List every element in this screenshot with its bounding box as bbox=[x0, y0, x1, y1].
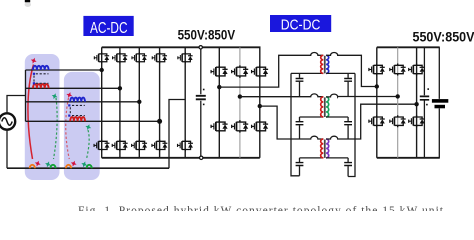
wire: source bottom lead bbox=[6, 130, 8, 169]
wire: T1 primary bottom lead bbox=[291, 72, 323, 74]
switch Q2 (AC-DC top leg2) bbox=[113, 52, 128, 63]
label DC-DC bbox=[270, 15, 331, 34]
switch Q17 (rectifier top leg1) bbox=[369, 64, 385, 76]
ac source V1 bbox=[0, 113, 15, 129]
battery load rail bbox=[438, 47, 440, 158]
svg-text:550V:850V: 550V:850V bbox=[178, 26, 236, 42]
wire: T2 secondary bottom lead bbox=[326, 116, 348, 118]
switch Q8 (AC-DC bottom leg3) bbox=[132, 140, 147, 152]
node: rectifier leg3 mid bbox=[414, 102, 418, 106]
switch Q15 (inverter bottom leg2) bbox=[232, 120, 249, 132]
svg-text:AC-DC: AC-DC bbox=[90, 20, 128, 37]
wire: rectifier leg 2 bbox=[397, 47, 399, 158]
node: rectifier leg2 mid bbox=[396, 94, 400, 98]
switch Q5 (AC-DC top leg5) bbox=[178, 52, 193, 63]
label AC-DC bbox=[83, 16, 133, 37]
highlight box around coupled inductor L1 bbox=[25, 54, 60, 180]
node: leg3/wire3 junction bbox=[137, 100, 141, 104]
wire: secondary cap branch 3 bbox=[347, 158, 349, 177]
capacitor Cs3 plates bbox=[344, 163, 352, 166]
wire: T3 secondary bottom lead bbox=[326, 157, 348, 159]
switch Q11 (inverter top leg1) bbox=[211, 65, 228, 77]
node: leg2/wire2 junction bbox=[118, 86, 122, 90]
wire: phase wire 3 (through L2 winding a) bbox=[26, 101, 140, 103]
cropped text artifact top-left bbox=[25, 0, 31, 7]
top dc bus bbox=[102, 46, 261, 48]
dc link rail bbox=[200, 47, 202, 158]
node: inverter leg1 mid bbox=[217, 85, 221, 89]
wire: return wire with sense windings bbox=[7, 167, 169, 169]
wire: AC-DC leg 1 bbox=[101, 47, 103, 158]
coupled inductor L1 winding b (red coil) bbox=[33, 84, 49, 88]
star mark return 2a (red) bbox=[70, 160, 78, 168]
switch Q20 (rectifier bottom leg1) bbox=[369, 115, 385, 127]
wire: T2 secondary top to rectifier leg 2 bbox=[326, 94, 398, 97]
node: leg1/wire1 junction bbox=[100, 68, 104, 72]
core L2 (dashed) bbox=[70, 105, 85, 115]
wire: DC-DC inverter leg 1 bbox=[218, 47, 220, 158]
switch Q12 (inverter top leg2) bbox=[232, 65, 249, 77]
wire: input bus vertical bbox=[25, 70, 27, 121]
wire: primary cap branch 1 bbox=[299, 73, 301, 96]
capacitor C_out plates bbox=[420, 96, 429, 99]
svg-text:Fig. 1. Proposed hybrid kW c: Fig. 1. Proposed hybrid kW converter top… bbox=[78, 205, 444, 211]
polarity dot L1b bbox=[33, 82, 35, 84]
transformer T2 bbox=[321, 97, 329, 117]
wire: rectifier leg 3 bbox=[416, 47, 418, 158]
capacitor Cs1 plates bbox=[344, 79, 352, 82]
wire: rectifier leg 1 bbox=[376, 47, 378, 158]
wire: AC-DC leg 2 bbox=[119, 47, 121, 158]
node: leg4/wire4 junction bbox=[157, 119, 162, 124]
switch Q6 (AC-DC bottom leg1) bbox=[94, 140, 109, 152]
switch Q13 (inverter top leg3) bbox=[252, 65, 269, 77]
wire: primary return vertical bbox=[291, 73, 300, 175]
switch Q19 (rectifier top leg3) bbox=[409, 64, 425, 76]
star mark L1b (green) bbox=[51, 92, 59, 100]
coupled inductor L2 winding b (red coil) bbox=[70, 117, 85, 121]
sense winding 1a (orange bump) bbox=[30, 165, 35, 168]
svg-text:DC-DC: DC-DC bbox=[281, 18, 321, 34]
coupled inductor L1 winding a (blue coil) bbox=[33, 66, 49, 70]
polarity marks C_out bbox=[427, 88, 429, 90]
switch Q9 (AC-DC bottom leg4) bbox=[152, 140, 167, 152]
switch Q10 (AC-DC bottom leg5) bbox=[178, 140, 193, 152]
switch Q16 (inverter bottom leg3) bbox=[252, 120, 269, 132]
star mark L1a (red) bbox=[30, 57, 38, 65]
wire: primary cap branch 2 bbox=[299, 117, 301, 139]
wire: T3 primary bottom lead bbox=[300, 157, 324, 159]
switch Q18 (rectifier top leg2) bbox=[390, 64, 406, 76]
switch Q21 (rectifier bottom leg2) bbox=[390, 115, 406, 127]
switch Q4 (AC-DC top leg4) bbox=[152, 52, 167, 63]
wire: phase wire 4 (through L2 winding b) bbox=[26, 120, 160, 122]
star mark return 2b (green) bbox=[80, 160, 88, 168]
output filter cap rail bbox=[423, 47, 425, 158]
transformer T1 bbox=[321, 55, 329, 73]
wire: source top lead bbox=[7, 96, 26, 114]
wire: primary cap branch 3 bbox=[299, 158, 301, 176]
wire: AC-DC leg 4 bbox=[159, 47, 161, 158]
star mark return 1a (red) bbox=[34, 160, 42, 168]
wire: DC-DC inverter leg 3 bbox=[259, 47, 261, 158]
sense winding 2a (orange bump) bbox=[66, 165, 71, 168]
wire: secondary cap branch 2 bbox=[347, 117, 349, 139]
switch Q1 (AC-DC top leg1) bbox=[94, 52, 109, 63]
coupled inductor L2 winding a (blue coil) bbox=[70, 98, 85, 102]
core L1 (dashed) bbox=[34, 74, 49, 84]
node: inverter leg3 mid bbox=[258, 104, 262, 108]
switch Q14 (inverter bottom leg1) bbox=[211, 120, 228, 132]
polarity dot L2a bbox=[68, 104, 70, 106]
capacitor Cs2 plates bbox=[344, 122, 352, 125]
polarity dot L2b bbox=[68, 115, 70, 117]
node: inverter leg2 mid bbox=[238, 94, 242, 98]
wire: T1 secondary top to rectifier leg 1 bbox=[326, 52, 377, 86]
battery plate long bbox=[432, 99, 448, 103]
wire: AC-DC leg 3 bbox=[138, 47, 140, 158]
highlight box around coupled inductor L2 bbox=[64, 72, 100, 180]
output top dc bus bbox=[377, 46, 440, 48]
flux arrow L2 winding b (green dashed curve) bbox=[87, 130, 90, 159]
star mark L2b (green) bbox=[84, 123, 92, 131]
polarity marks C_dc bbox=[203, 89, 205, 91]
capacitor C_dc plates bbox=[196, 96, 206, 100]
capacitor Cp3 plates bbox=[296, 163, 304, 166]
node: rectifier leg1 mid bbox=[375, 84, 379, 88]
wire: T1 secondary bottom lead bbox=[326, 72, 355, 74]
wire: phase wire 1 (through L1 winding a) bbox=[26, 69, 102, 71]
wire: phase A to T1 primary top bbox=[219, 52, 323, 87]
wire: phase B to T2 primary top bbox=[240, 94, 323, 97]
flux arrow L1 winding b (green dashed curve) bbox=[54, 98, 58, 159]
wire: return riser to leg 5 midpoint bbox=[169, 100, 185, 169]
capacitor Cp2 plates bbox=[296, 122, 304, 125]
wire: phase C to T3 primary top bbox=[260, 106, 324, 139]
node: dc+ terminal (open) bbox=[199, 46, 202, 49]
polarity dot L1a bbox=[33, 73, 35, 75]
flux arrow L1 winding a (red solid curve) bbox=[28, 65, 34, 160]
node: dc- terminal (open) bbox=[200, 156, 203, 159]
wire: secondary cap branch 1 bbox=[347, 73, 349, 96]
sense winding 1b (green bump) bbox=[50, 165, 55, 168]
wire: phase wire 2 (through L1 winding b) bbox=[26, 87, 120, 89]
wire: DC-DC inverter leg 2 bbox=[239, 47, 241, 158]
wire: T3 secondary top to rectifier leg 3 bbox=[326, 104, 417, 139]
wire: AC-DC leg 5 bbox=[184, 47, 186, 158]
switch Q7 (AC-DC bottom leg2) bbox=[112, 140, 127, 152]
transformer T3 bbox=[321, 139, 329, 158]
flux arrow L2 winding a (red dashed curve) bbox=[66, 98, 70, 159]
wire: T2 primary bottom lead bbox=[300, 116, 324, 118]
switch Q3 (AC-DC top leg3) bbox=[132, 52, 147, 63]
star mark L2a (red) bbox=[65, 91, 73, 99]
svg-text:550V:850V: 550V:850V bbox=[413, 28, 474, 44]
wire: secondary return vertical bbox=[348, 73, 355, 176]
capacitor Cp1 plates bbox=[296, 79, 304, 82]
star mark return 1b (green) bbox=[44, 160, 52, 168]
switch Q22 (rectifier bottom leg3) bbox=[409, 115, 425, 127]
sense winding 2b (green bump) bbox=[87, 165, 92, 168]
output bottom dc bus bbox=[377, 157, 440, 159]
battery plate short bbox=[435, 105, 446, 109]
bottom dc bus bbox=[102, 157, 260, 159]
